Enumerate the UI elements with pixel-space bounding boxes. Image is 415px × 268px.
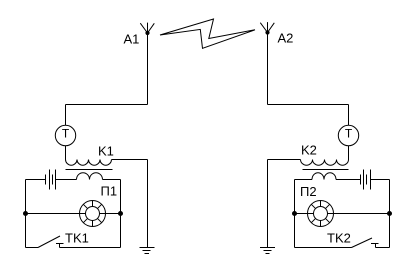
svg-text:T: T: [345, 127, 353, 141]
receiver П1: [80, 201, 106, 227]
wire top horizontal right: [268, 104, 349, 106]
wire meter2 to winding: [348, 146, 350, 160]
wire top horizontal left: [66, 104, 148, 106]
wire to meter T1: [65, 105, 67, 126]
transformer K1 core: [66, 169, 113, 171]
wire left edge of loop 2: [294, 180, 296, 248]
wire top edge right loop: [295, 179, 390, 181]
switch TK1: [38, 236, 64, 248]
wire winding2 to ground lead: [268, 159, 301, 161]
svg-text:TK2: TK2: [327, 231, 351, 246]
wire right edge of loop 1: [120, 180, 122, 248]
meter T1: [55, 125, 75, 145]
wire top edge left loop: [26, 179, 121, 181]
svg-text:TK1: TK1: [65, 231, 89, 246]
wire middle of loop 1: [26, 213, 121, 215]
node loop2 left: [293, 212, 297, 216]
antenna A2: [260, 22, 274, 32]
node loop1 right: [119, 212, 123, 216]
wire A2 down-lead: [267, 33, 269, 105]
transformer K1 primary winding: [66, 160, 112, 166]
svg-text:П2: П2: [300, 184, 317, 199]
antenna A1: [140, 23, 154, 33]
svg-text:T: T: [62, 127, 70, 141]
wire ground lead right: [267, 160, 269, 248]
wire meter to winding: [65, 146, 67, 160]
svg-text:A1: A1: [124, 32, 140, 47]
wire A1 down-lead: [147, 33, 149, 105]
lightning bolt: [160, 19, 255, 48]
node A1 apex: [146, 31, 149, 34]
battery GB2: [361, 170, 371, 190]
node loop1 left: [24, 212, 28, 216]
svg-text:K2: K2: [301, 143, 317, 158]
wire bottom edge right of key: [60, 247, 121, 249]
svg-text:A2: A2: [278, 31, 294, 46]
transformer K2 primary winding: [301, 160, 349, 166]
battery GB1: [46, 170, 56, 190]
wire bottom edge left of key 2: [295, 247, 352, 249]
ground left: [140, 248, 155, 254]
wire middle of loop 2: [295, 213, 390, 215]
wire ground lead left: [147, 160, 149, 248]
meter T2: [338, 125, 358, 145]
wire bottom edge left of key: [26, 247, 39, 249]
wire left edge of loop 1: [25, 180, 27, 248]
wire right edge of loop 2: [389, 180, 391, 248]
wire to meter T2: [348, 105, 350, 126]
transformer K2 core: [303, 169, 349, 171]
svg-text:K1: K1: [98, 144, 114, 159]
svg-text:П1: П1: [101, 184, 118, 199]
ground right: [260, 248, 275, 254]
node loop2 right: [388, 212, 392, 216]
receiver П2: [308, 201, 334, 227]
transformer K2 secondary winding: [312, 173, 336, 180]
transformer K1 secondary winding: [77, 173, 103, 180]
wire bottom edge right of key 2: [376, 247, 390, 249]
node A2 apex: [266, 31, 269, 34]
switch TK2: [352, 238, 379, 248]
wire winding to ground lead: [112, 159, 148, 161]
